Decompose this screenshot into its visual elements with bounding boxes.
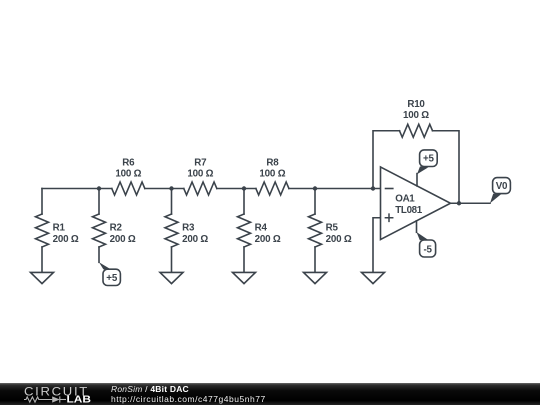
resistor R7 100 ohm: [184, 157, 217, 195]
resistor R1 200 ohm (vertical): [36, 189, 79, 273]
node flag V0 (output): [490, 178, 510, 204]
junction node (feedback / bus): [371, 186, 375, 190]
svg-text:R8: R8: [266, 157, 279, 168]
svg-text:-5: -5: [423, 244, 432, 255]
power flag +5 (on R2): [99, 262, 120, 285]
ground (below op-amp non-inverting input): [362, 272, 385, 283]
power flag -5 (op-amp V-): [417, 221, 436, 257]
svg-text:TL081: TL081: [395, 205, 422, 216]
power flag +5 (op-amp V+): [417, 150, 437, 186]
svg-text:R6: R6: [122, 157, 135, 168]
svg-text:LAB: LAB: [67, 395, 92, 405]
svg-text:R7: R7: [194, 157, 207, 168]
wire main bus segment A (R1 top to R6 left): [42, 188, 112, 190]
resistor R2 200 ohm (vertical): [93, 189, 136, 263]
resistor R5 200 ohm (vertical): [309, 189, 352, 273]
svg-text:R5: R5: [326, 223, 339, 234]
resistor R4 200 ohm (vertical): [238, 189, 281, 273]
svg-text:R3: R3: [182, 223, 195, 234]
svg-text:R4: R4: [255, 223, 268, 234]
wire feedback left vertical (inverting node up to R10): [373, 131, 400, 189]
wire bus segment D (R8 right to op-amp inverting input): [289, 188, 381, 190]
resistor R10 100 ohm (feedback): [400, 99, 433, 137]
svg-text:R1: R1: [53, 223, 66, 234]
wire feedback right vertical (R10 down to output): [433, 131, 460, 204]
svg-text:200 Ω: 200 Ω: [255, 234, 281, 245]
svg-text:+5: +5: [106, 273, 118, 284]
svg-text:200 Ω: 200 Ω: [182, 234, 208, 245]
wire bus segment C (R7 right to R8 left): [217, 188, 256, 190]
svg-text:OA1: OA1: [395, 194, 415, 205]
svg-text:R10: R10: [407, 99, 425, 110]
junction node (R4 / bus): [242, 186, 246, 190]
svg-text:V0: V0: [496, 181, 508, 192]
svg-text:100 Ω: 100 Ω: [259, 169, 285, 180]
svg-text:200 Ω: 200 Ω: [53, 234, 79, 245]
resistor R8 100 ohm: [256, 157, 289, 195]
resistor R6 100 ohm: [112, 157, 145, 195]
ground (below R1): [31, 272, 54, 283]
wire bus segment B (R6 right to R7 left): [145, 188, 184, 190]
svg-text:RonSim / 4Bit DAC: RonSim / 4Bit DAC: [111, 384, 189, 394]
footer bar: [0, 383, 540, 405]
resistor R3 200 ohm (vertical): [165, 189, 208, 273]
junction node (R3 / bus): [169, 186, 173, 190]
junction node (R5 / bus): [313, 186, 317, 190]
junction node (R2 / bus): [97, 186, 101, 190]
svg-text:200 Ω: 200 Ω: [110, 234, 136, 245]
CircuitLab logo resistor-diode line: [24, 396, 66, 402]
junction node (output / feedback): [457, 201, 461, 205]
op-amp OA1 TL081: [381, 167, 451, 240]
svg-text:100 Ω: 100 Ω: [115, 169, 141, 180]
svg-text:100 Ω: 100 Ω: [403, 110, 429, 121]
ground (below R4): [233, 272, 256, 283]
svg-text:R2: R2: [110, 223, 123, 234]
svg-text:+5: +5: [423, 154, 435, 165]
ground (below R5): [304, 272, 327, 283]
svg-text:http://circuitlab.com/c477g4bu: http://circuitlab.com/c477g4bu5nh77: [111, 394, 266, 404]
wire output segment: [451, 202, 491, 204]
svg-text:200 Ω: 200 Ω: [326, 234, 352, 245]
wire non-inverting input stub to ground: [373, 218, 381, 273]
svg-text:100 Ω: 100 Ω: [187, 169, 213, 180]
ground (below R3): [160, 272, 183, 283]
